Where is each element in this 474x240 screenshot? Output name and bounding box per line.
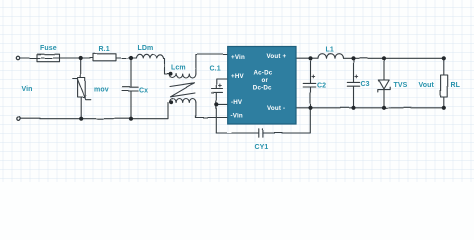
svg-text:Fuse: Fuse <box>40 45 57 52</box>
svg-text:C3: C3 <box>361 81 370 88</box>
svg-text:Vout: Vout <box>419 82 435 89</box>
svg-text:Dc-Dc: Dc-Dc <box>253 84 272 91</box>
svg-text:-HV: -HV <box>231 99 243 106</box>
svg-text:-Vin: -Vin <box>231 113 243 120</box>
svg-text:C2: C2 <box>317 83 326 90</box>
svg-text:TVS: TVS <box>394 82 408 89</box>
svg-text:or: or <box>262 77 269 84</box>
svg-text:LDm: LDm <box>138 45 154 52</box>
svg-text:Vout -: Vout - <box>267 105 285 112</box>
svg-text:Vout +: Vout + <box>267 53 287 60</box>
svg-text:+HV: +HV <box>231 73 244 80</box>
svg-text:Cx: Cx <box>139 88 148 95</box>
svg-text:+Vin: +Vin <box>231 54 245 61</box>
svg-text:L1: L1 <box>326 47 334 54</box>
svg-text:mov: mov <box>94 87 109 94</box>
svg-text:RL: RL <box>451 82 461 89</box>
svg-text:Lcm: Lcm <box>171 65 186 72</box>
svg-text:CY1: CY1 <box>255 144 269 151</box>
svg-text:R.1: R.1 <box>99 46 110 53</box>
svg-text:Ac-Dc: Ac-Dc <box>254 69 273 76</box>
svg-text:C.1: C.1 <box>210 66 221 73</box>
svg-text:Vin: Vin <box>22 86 33 93</box>
